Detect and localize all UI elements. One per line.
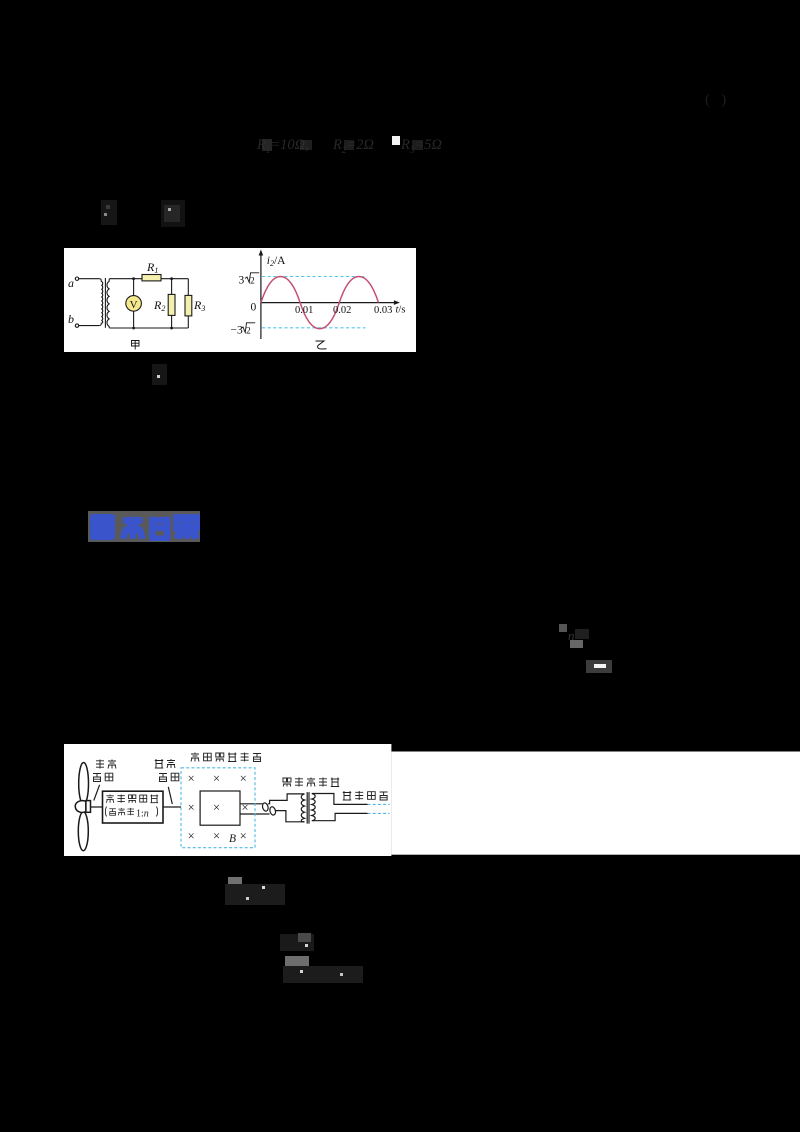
svg-text:V: V <box>130 298 138 310</box>
svg-text:×: × <box>240 829 247 843</box>
svg-text:0.01: 0.01 <box>295 304 313 315</box>
svg-text:×: × <box>188 800 195 814</box>
svg-text:×: × <box>213 771 220 785</box>
svg-text:0.02: 0.02 <box>333 304 351 315</box>
svg-text:×: × <box>240 771 247 785</box>
svg-text:×: × <box>213 829 220 843</box>
svg-text:×: × <box>188 771 195 785</box>
svg-text:−3: −3 <box>231 324 243 336</box>
svg-text:b: b <box>68 311 74 325</box>
svg-text:0.03: 0.03 <box>374 304 392 315</box>
svg-text:2: 2 <box>250 276 255 286</box>
svg-text:t/s: t/s <box>395 304 405 315</box>
svg-text:1:n: 1:n <box>136 808 149 819</box>
svg-text:×: × <box>242 800 249 814</box>
svg-text:3: 3 <box>239 274 245 286</box>
svg-text:2: 2 <box>246 326 251 336</box>
svg-text:0: 0 <box>250 301 256 313</box>
svg-text:×: × <box>188 829 195 843</box>
svg-text:B: B <box>229 833 236 845</box>
svg-text:i2/A: i2/A <box>267 254 286 267</box>
svg-text:×: × <box>213 800 220 814</box>
svg-text:a: a <box>68 275 74 289</box>
